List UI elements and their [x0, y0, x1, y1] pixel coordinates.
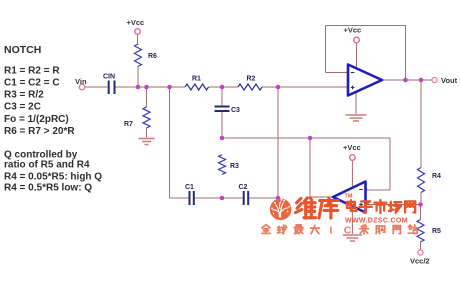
watermark [262, 194, 418, 237]
resistor R2 [238, 84, 262, 90]
junction U1 feedback/output [403, 78, 408, 83]
svg-text:C1 = C2 = C: C1 = C2 = C [4, 78, 60, 89]
bottom line C1 to C2 [195, 197, 243, 199]
svg-text:R1: R1 [192, 76, 201, 83]
svg-text:+Vcc: +Vcc [344, 26, 362, 35]
wire +Vcc to R6 [137, 35, 139, 45]
svg-text:R5: R5 [432, 228, 441, 235]
wire U1 ground pin [355, 92, 357, 114]
wire U2 output left [310, 196, 333, 198]
svg-text:Fo = 1/(2pRC): Fo = 1/(2pRC) [4, 114, 69, 125]
svg-text:R4 = 0.05*R5: high Q: R4 = 0.05*R5: high Q [4, 172, 102, 183]
op-amp U1 [348, 65, 382, 96]
svg-text:CIN: CIN [103, 74, 115, 81]
junction node B (R1/R2/C3) [220, 85, 225, 90]
svg-text:R6 = R7 > 20*R: R6 = R7 > 20*R [4, 126, 75, 137]
watermark characters 电子市场网 [347, 200, 357, 211]
resistor R1 [185, 84, 209, 90]
resistor R3 [219, 155, 226, 175]
junction output/R4 column [419, 78, 424, 83]
watermark big characters 维库 [295, 198, 315, 218]
capacitor CIN [109, 81, 115, 95]
capacitor C1 [190, 191, 194, 205]
terminal +Vcc (R6) [135, 29, 141, 35]
op-amp U2 [333, 182, 366, 213]
resistor R5 [417, 220, 424, 243]
wire R5 to Vcc/2 terminal [420, 242, 422, 250]
svg-text:C2: C2 [239, 184, 248, 191]
wire node C down to C2 line [277, 87, 279, 198]
junction R4/R5 divider node [418, 202, 423, 207]
wire U1 feedback right edge down to output [405, 26, 407, 81]
svg-text:R4: R4 [432, 173, 441, 180]
watermark slogan row [262, 225, 270, 234]
svg-text:R3 = R/2: R3 = R/2 [4, 90, 44, 101]
junction R6/main line [136, 85, 141, 90]
svg-text:C3: C3 [231, 107, 240, 114]
left formula text block [4, 44, 102, 194]
capacitor C2 [244, 191, 249, 205]
junction C-branch drop/main line [167, 85, 172, 90]
wire U1 feedback top edge [326, 25, 406, 27]
wire feedback right edge op-amp U2 [389, 138, 391, 190]
wire U1 feedback left edge [325, 26, 327, 73]
junction node C (R2/C2/U1 input) [276, 85, 281, 90]
resistor R7 [143, 107, 150, 128]
wire R4 to divider node [420, 193, 422, 205]
svg-text:C3 = 2C: C3 = 2C [4, 102, 41, 113]
wire U2 ground pin [351, 206, 353, 234]
capacitor C3 [215, 107, 230, 112]
wire R6 to main line [137, 67, 139, 88]
svg-text:TM: TM [345, 194, 353, 200]
wire U1 minus input left [326, 72, 349, 74]
svg-text:R3: R3 [230, 163, 239, 170]
svg-text:R6: R6 [148, 53, 157, 60]
svg-text:R1 = R2 = R: R1 = R2 = R [4, 66, 60, 77]
junction U2 output/bootstrap line [308, 136, 313, 141]
svg-text:C1: C1 [185, 184, 194, 191]
resistor R4 [418, 168, 425, 193]
svg-text:Vin: Vin [75, 77, 87, 86]
wire node B down to C3 [221, 87, 223, 106]
terminal Vcc/2 [418, 250, 423, 255]
wire R1 to R2 [209, 86, 239, 88]
junction C3/R3 bootstrap [220, 136, 225, 141]
ground below op-amp U2 [343, 235, 362, 241]
wire Vin to CIN [85, 86, 108, 88]
terminal +Vcc (U1) [354, 37, 360, 43]
watermark logo circle [270, 199, 292, 221]
terminal +Vcc (U2) [350, 155, 356, 161]
terminal Vout [432, 77, 437, 82]
wire divider node to R5 [420, 205, 422, 220]
svg-text:NOTCH: NOTCH [4, 44, 41, 56]
wire U2 vcc pin [351, 161, 353, 189]
svg-text:C: C [344, 224, 352, 236]
svg-text:Vcc/2: Vcc/2 [410, 257, 430, 266]
wire into U2 minus input [366, 189, 391, 191]
wire R7 to ground [146, 128, 148, 138]
wire U2 output up to bootstrap [309, 138, 311, 197]
wire U1 output to Vout [382, 79, 432, 81]
wire node A branch down to C1 line [169, 87, 171, 198]
svg-text:Vout: Vout [441, 76, 458, 85]
svg-text:ratio of R5 and R4: ratio of R5 and R4 [4, 160, 90, 171]
wire node A to R7 [146, 87, 148, 107]
svg-text:R2: R2 [247, 76, 256, 83]
svg-text:WWW.DZSC.COM: WWW.DZSC.COM [345, 218, 408, 225]
wire output down to R4 [420, 80, 422, 168]
wire C3 to bootstrap line [221, 112, 223, 139]
terminal Vin [79, 84, 85, 90]
junction C2 line/node C column [276, 196, 281, 201]
wire CIN to R1 [116, 86, 186, 88]
svg-text:+Vcc: +Vcc [127, 18, 145, 27]
wire U2 plus input to divider [366, 204, 421, 206]
bootstrap line C3/R3 to feedback corner [222, 137, 390, 139]
svg-text:R4 = 0.5*R5 low: Q: R4 = 0.5*R5 low: Q [4, 183, 92, 194]
junction node D (C1/C2/R3) [220, 196, 225, 201]
resistor R6 [135, 44, 142, 67]
wire U1 vcc pin [356, 43, 358, 68]
ground below op-amp U1 [346, 115, 367, 121]
junction R7/main line (node A) [144, 85, 149, 90]
svg-text:+Vcc: +Vcc [343, 143, 361, 152]
ground below R7 [139, 139, 155, 145]
svg-text:I: I [329, 224, 332, 236]
svg-text:R7: R7 [124, 121, 133, 128]
wire R2 to op-amp U1 plus input [262, 86, 348, 88]
bottom line left to C1 [170, 197, 189, 199]
bottom line C2 to node C column [249, 197, 278, 199]
